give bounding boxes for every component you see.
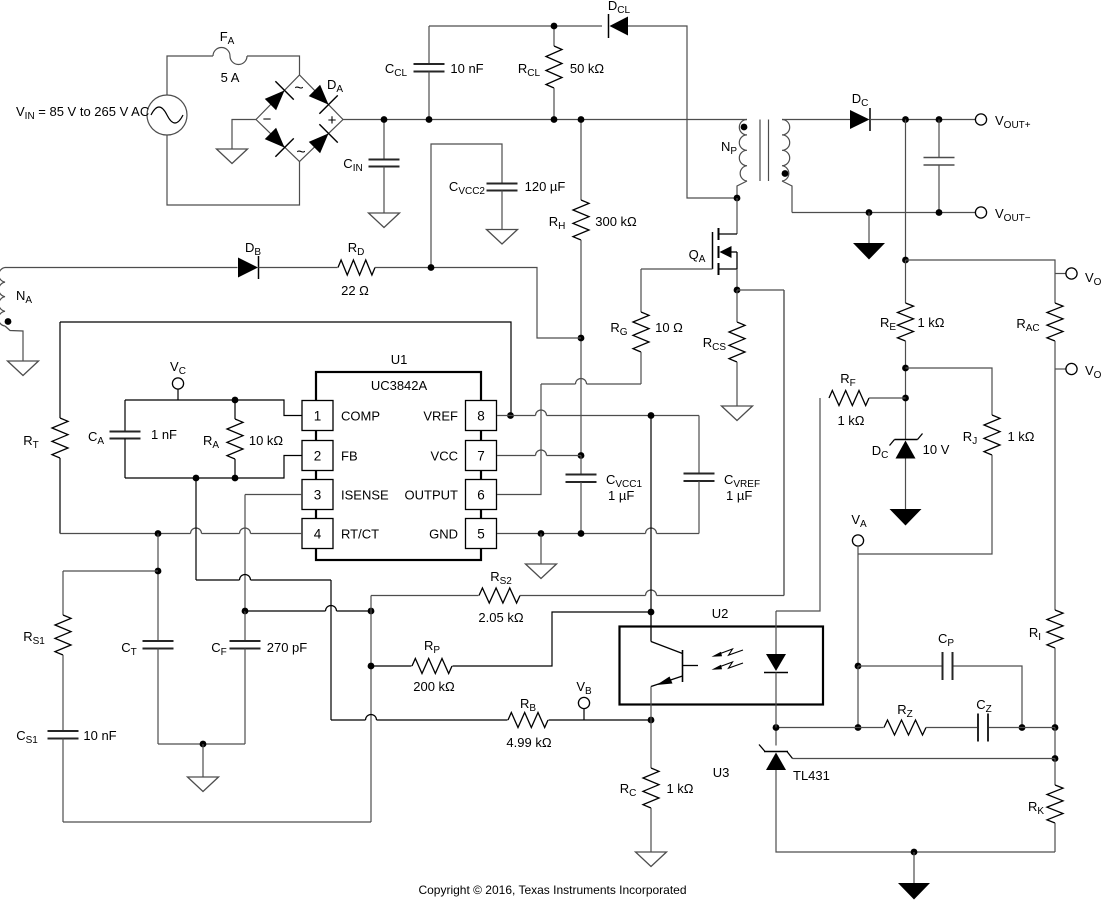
svg-text:U2: U2 [712, 606, 729, 621]
svg-text:1 kΩ: 1 kΩ [666, 781, 693, 796]
svg-text:1 µF: 1 µF [726, 488, 752, 503]
svg-text:4: 4 [314, 527, 322, 542]
svg-text:−: − [263, 111, 272, 128]
svg-text:U3: U3 [713, 765, 730, 780]
svg-text:7: 7 [477, 449, 485, 464]
svg-text:300 kΩ: 300 kΩ [595, 214, 637, 229]
svg-text:COMP: COMP [341, 409, 380, 424]
svg-text:50 kΩ: 50 kΩ [570, 61, 605, 76]
svg-text:8: 8 [477, 409, 485, 424]
svg-text:5 A: 5 A [221, 70, 240, 85]
svg-text:4.99 kΩ: 4.99 kΩ [506, 735, 551, 750]
svg-text:10 V: 10 V [923, 442, 950, 457]
svg-text:2.05 kΩ: 2.05 kΩ [478, 610, 523, 625]
svg-text:5: 5 [477, 527, 485, 542]
svg-text:1 kΩ: 1 kΩ [1007, 429, 1034, 444]
svg-text:22 Ω: 22 Ω [341, 283, 369, 298]
svg-text:1 kΩ: 1 kΩ [917, 315, 944, 330]
svg-text:10 Ω: 10 Ω [655, 320, 683, 335]
svg-text:TL431: TL431 [793, 768, 830, 783]
svg-text:+: + [328, 112, 337, 129]
svg-text:OUTPUT: OUTPUT [405, 488, 459, 503]
svg-text:10 nF: 10 nF [450, 61, 483, 76]
svg-text:1 µF: 1 µF [608, 488, 634, 503]
svg-text:RT/CT: RT/CT [341, 527, 379, 542]
svg-text:3: 3 [314, 488, 322, 503]
svg-text:10 nF: 10 nF [83, 728, 116, 743]
svg-text:120 µF: 120 µF [525, 179, 566, 194]
svg-text:Copyright © 2016, Texas Instru: Copyright © 2016, Texas Instruments Inco… [418, 883, 686, 897]
svg-text:270 pF: 270 pF [267, 640, 308, 655]
svg-text:VREF: VREF [423, 409, 458, 424]
svg-text:ISENSE: ISENSE [341, 488, 389, 503]
svg-text:FB: FB [341, 449, 358, 464]
svg-text:1 kΩ: 1 kΩ [837, 413, 864, 428]
svg-text:2: 2 [314, 449, 322, 464]
svg-text:10 kΩ: 10 kΩ [249, 433, 284, 448]
svg-text:1: 1 [314, 409, 322, 424]
svg-text:6: 6 [477, 488, 485, 503]
svg-text:VCC: VCC [431, 449, 458, 464]
svg-text:~: ~ [296, 144, 305, 161]
svg-text:UC3842A: UC3842A [371, 378, 428, 393]
svg-text:200 kΩ: 200 kΩ [413, 679, 455, 694]
svg-text:1 nF: 1 nF [151, 427, 177, 442]
svg-text:~: ~ [294, 80, 303, 97]
svg-text:GND: GND [429, 527, 458, 542]
svg-text:U1: U1 [391, 352, 408, 367]
